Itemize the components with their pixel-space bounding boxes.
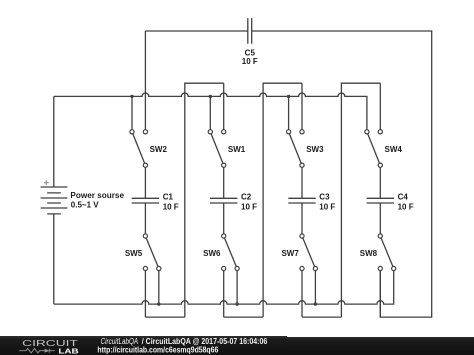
svg-text:C3: C3 bbox=[319, 192, 330, 201]
svg-text:SW7: SW7 bbox=[281, 249, 299, 258]
svg-text:10 F: 10 F bbox=[163, 202, 179, 211]
svg-text:C4: C4 bbox=[398, 192, 409, 201]
svg-text:SW3: SW3 bbox=[306, 145, 324, 154]
svg-text:http://circuitlab.com/c6esmq9d: http://circuitlab.com/c6esmq9d58q66 bbox=[97, 346, 218, 355]
svg-text:SW4: SW4 bbox=[385, 145, 403, 154]
svg-text:10 F: 10 F bbox=[319, 202, 335, 211]
svg-text:LAB: LAB bbox=[58, 347, 78, 355]
svg-text:SW2: SW2 bbox=[150, 145, 168, 154]
svg-text:10 F: 10 F bbox=[241, 202, 257, 211]
svg-text:SW8: SW8 bbox=[360, 249, 378, 258]
svg-text:C5: C5 bbox=[245, 48, 256, 57]
svg-text:C1: C1 bbox=[163, 192, 174, 201]
svg-text:10 F: 10 F bbox=[242, 57, 258, 66]
svg-text:C2: C2 bbox=[241, 192, 252, 201]
svg-text:0.5~1 V: 0.5~1 V bbox=[71, 200, 99, 209]
svg-text:10 F: 10 F bbox=[398, 202, 414, 211]
svg-text:SW5: SW5 bbox=[125, 249, 143, 258]
svg-text:SW6: SW6 bbox=[203, 249, 221, 258]
svg-text:Power sourse: Power sourse bbox=[70, 191, 124, 200]
svg-text:SW1: SW1 bbox=[228, 145, 246, 154]
